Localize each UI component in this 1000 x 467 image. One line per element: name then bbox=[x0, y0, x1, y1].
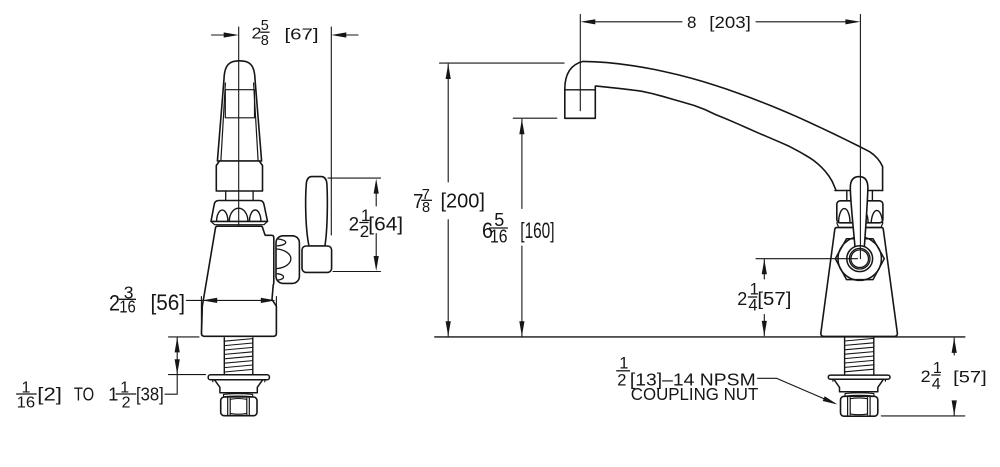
svg-text:[56]: [56] bbox=[151, 290, 186, 315]
svg-text:[38]: [38] bbox=[136, 384, 164, 405]
svg-text:8: 8 bbox=[422, 200, 430, 216]
svg-text:8: 8 bbox=[687, 13, 696, 32]
svg-text:16: 16 bbox=[17, 394, 36, 411]
svg-text:TO: TO bbox=[74, 384, 94, 405]
svg-text:5: 5 bbox=[261, 18, 269, 34]
svg-text:[2]: [2] bbox=[37, 384, 62, 405]
svg-text:[57]: [57] bbox=[953, 368, 987, 387]
svg-text:[64]: [64] bbox=[368, 215, 403, 236]
svg-text:8: 8 bbox=[261, 33, 269, 49]
svg-text:[203]: [203] bbox=[709, 13, 751, 32]
svg-text:[67]: [67] bbox=[285, 26, 319, 43]
svg-text:[200]: [200] bbox=[441, 189, 486, 212]
svg-text:[57]: [57] bbox=[757, 288, 791, 309]
svg-text:4: 4 bbox=[748, 296, 757, 314]
svg-text:1: 1 bbox=[619, 354, 628, 372]
svg-text:2: 2 bbox=[349, 215, 360, 236]
svg-text:4: 4 bbox=[932, 376, 941, 393]
svg-text:COUPLING NUT: COUPLING NUT bbox=[631, 384, 759, 404]
svg-text:2: 2 bbox=[617, 371, 626, 389]
svg-text:16: 16 bbox=[490, 226, 508, 246]
svg-text:[160]: [160] bbox=[520, 218, 554, 243]
svg-text:2: 2 bbox=[921, 367, 931, 386]
svg-text:2: 2 bbox=[122, 394, 131, 411]
svg-text:2: 2 bbox=[737, 288, 747, 309]
